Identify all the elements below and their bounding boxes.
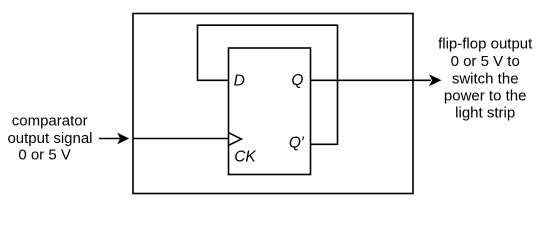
svg-text:Q′: Q′ (289, 135, 305, 152)
wire: Q' feedback loop to D input (198, 25, 338, 144)
svg-text:light strip: light strip (455, 104, 515, 121)
svg-text:Q: Q (291, 72, 303, 89)
svg-text:0 or 5 V: 0 or 5 V (18, 147, 71, 164)
arrowhead: input arrow (117, 133, 129, 144)
svg-text:CK: CK (234, 148, 256, 165)
wire: comparator input to CK (133, 138, 229, 140)
arrowhead: output arrow (429, 74, 442, 86)
svg-text:power to the: power to the (444, 88, 527, 105)
clock input triangle (CK pin) (229, 133, 242, 146)
outer enclosure box (133, 14, 413, 194)
wire: Q output shaft (311, 79, 432, 81)
svg-text:D: D (234, 73, 245, 90)
svg-text:switch the: switch the (452, 70, 519, 87)
svg-text:output signal: output signal (7, 130, 92, 147)
flip-flop U1 body (229, 48, 311, 175)
svg-text:comparator: comparator (12, 113, 88, 130)
wire: input arrow shaft (99, 138, 120, 140)
svg-text:flip-flop output: flip-flop output (438, 36, 533, 53)
svg-text:0 or 5 V to: 0 or 5 V to (451, 53, 520, 70)
